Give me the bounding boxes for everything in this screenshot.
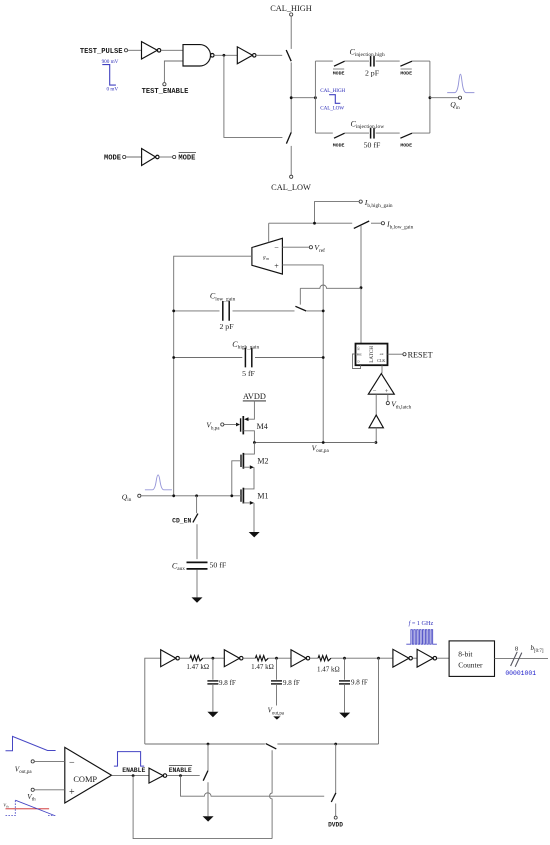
switch S9 (CD_EN): [193, 514, 198, 523]
wire Q_in line: [141, 495, 241, 497]
wire V_out_pa to COMP minus: [34, 760, 65, 762]
terminal I_b_high_gain: [359, 200, 362, 203]
svg-text:900 mV: 900 mV: [102, 59, 119, 65]
svg-text:PRE: PRE: [357, 353, 362, 356]
svg-text:CLK: CLK: [377, 358, 385, 363]
wire CD_EN branch upper: [196, 496, 198, 513]
svg-text:CAL_LOW: CAL_LOW: [271, 183, 311, 192]
transistor M1 (NMOS input): [241, 488, 254, 505]
inverter U4 (MODE): [142, 149, 160, 166]
terminal MODE-bar: [173, 155, 176, 158]
nand gate U2: [183, 45, 214, 66]
svg-text:M1: M1: [257, 492, 268, 501]
wire right bracket: [412, 61, 430, 133]
junction V_out_pa / M4 drain: [253, 441, 256, 444]
bus slash marks: [511, 652, 522, 667]
wire U12 to counter: [437, 657, 449, 659]
wire C_low_gain left: [174, 310, 220, 312]
junction feedback / DVDD branch: [334, 743, 337, 746]
wire U10 to R3: [310, 657, 319, 659]
wire latch feedback loop: [353, 354, 361, 369]
resistor R2: [255, 656, 268, 661]
svg-text:−: −: [69, 758, 75, 769]
inverter U8 (ring stage 1): [161, 650, 180, 667]
terminal MODE: [123, 155, 126, 158]
wire S1 to center node: [290, 62, 292, 132]
svg-text:CAL_LOW: CAL_LOW: [320, 106, 344, 112]
terminal Q_in (middle): [138, 494, 141, 497]
junction ENABLE-bar node: [179, 774, 182, 777]
ground C3: [339, 713, 350, 718]
wire NAND output to node A: [214, 54, 237, 56]
junction ring node 3: [343, 657, 346, 660]
wire R2 to inverter C: [268, 657, 291, 659]
junction ENABLE node: [132, 774, 135, 777]
svg-text:1.47 kΩ: 1.47 kΩ: [186, 663, 209, 671]
transistor M4 (PMOS): [236, 416, 249, 434]
capacitor C_injection_low: [371, 128, 374, 139]
wire ring node 2 down to C2: [276, 658, 278, 680]
ground C1: [207, 712, 218, 717]
wire C_aux to ground: [196, 570, 198, 598]
junction C_low_gain left rail: [172, 310, 175, 313]
wire R3 to buffers: [331, 657, 393, 659]
wire ring feedback line: [145, 743, 379, 745]
wire bias line: [269, 222, 353, 224]
label MODE-bar for S4: [400, 69, 412, 76]
svg-text:00001001: 00001001: [505, 670, 536, 677]
terminal TEST_PULSE: [124, 49, 127, 52]
capacitor C_high_gain: [245, 348, 251, 368]
wire S10 to ground: [207, 782, 209, 816]
junction V_out_pa / buffer: [375, 441, 378, 444]
switch S1 (CAL_HIGH select): [286, 50, 291, 61]
junction CAL center node: [290, 96, 293, 99]
svg-text:LATCH: LATCH: [369, 346, 375, 363]
terminal TEST_ENABLE: [163, 83, 166, 86]
svg-text:MODE: MODE: [178, 155, 195, 163]
svg-text:+: +: [274, 262, 279, 271]
svg-text:M2: M2: [257, 457, 268, 466]
wire U6 plus input to V_th_latch: [387, 394, 389, 401]
switch S12 (pull to DVDD): [331, 793, 336, 802]
wire latch rail down from S7: [360, 226, 362, 344]
waveform clock burst f=1GHz (blue): [406, 630, 437, 645]
wire DVDD branch upper: [335, 744, 337, 793]
wire S2 to CAL_LOW: [290, 146, 292, 175]
wire U6 minus input down to buffer: [375, 394, 377, 415]
switch S3 (MODE-bar, C_inj_high left): [334, 61, 345, 66]
terminal RESET: [403, 353, 406, 356]
svg-text:MODE: MODE: [104, 155, 121, 163]
svg-text:9.8 fF: 9.8 fF: [351, 678, 368, 686]
ground tail V_out_pa: [273, 716, 280, 719]
svg-text:50 fF: 50 fF: [364, 141, 381, 150]
terminal V_out_pa (COMP input): [31, 760, 34, 763]
svg-text:CAL_HIGH: CAL_HIGH: [320, 88, 345, 94]
wire C_injection_high to S4: [376, 60, 400, 62]
wire M4 drain to V_out_pa node: [243, 431, 254, 443]
junction Q_in / CD_EN branch: [195, 494, 198, 497]
svg-text:2 pF: 2 pF: [365, 69, 380, 78]
wire S5 to C_injection_low: [345, 132, 369, 134]
junction feedback tap: [377, 657, 380, 660]
switch S8 (C_low_gain select): [295, 306, 306, 311]
wire C_injection_low to S6: [376, 132, 400, 134]
waveform TEST_PULSE step (blue): [102, 65, 116, 86]
wire U11 to U12: [413, 657, 417, 659]
waveform V_th threshold (red/blue): [3, 800, 56, 815]
wire AVDD to M4 source: [248, 401, 255, 419]
waveform Q_in pulse (blue, middle): [145, 475, 172, 490]
op-amp U6 (latch comparator): [368, 374, 394, 396]
svg-text:CAL_HIGH: CAL_HIGH: [270, 4, 311, 13]
wire S8 to plus node: [307, 310, 324, 312]
terminal Q_in (top): [458, 96, 461, 99]
capacitor C2 9.8fF: [271, 681, 282, 684]
wire counter output bus: [495, 657, 549, 659]
svg-text:TEST_PULSE: TEST_PULSE: [80, 48, 123, 56]
label MODE-bar for S3: [333, 69, 345, 76]
ground M1 source: [249, 532, 260, 537]
capacitor C_low_gain: [223, 301, 229, 321]
svg-text:−: −: [274, 243, 279, 252]
svg-text:9.8 fF: 9.8 fF: [219, 679, 236, 687]
svg-text:0 mV: 0 mV: [106, 87, 118, 93]
wire gm minus input to V_ref: [282, 246, 309, 248]
wire M2 source to M1 drain: [243, 467, 254, 489]
wire V_out_pa line: [254, 442, 376, 444]
wire bias entry to gm top: [268, 223, 270, 242]
wire C2 to V_out_pa tail: [276, 684, 278, 706]
wire CAL_HIGH down: [290, 16, 292, 49]
switch S4 (MODE-bar, C_inj_high right): [400, 61, 412, 66]
svg-text:MODE: MODE: [400, 142, 412, 148]
junction plus node / C_high_gain: [322, 356, 325, 359]
wire U14 output to switch S10: [167, 775, 200, 777]
junction branch split: [314, 96, 317, 99]
junction feedback / pulldown branch: [207, 743, 210, 746]
inverter U12 (buffer 2): [417, 649, 437, 667]
svg-text:AVDD: AVDD: [243, 392, 266, 401]
wire M2 gate to Q_in line: [232, 461, 241, 496]
junction latch rail / bypass: [360, 286, 363, 289]
terminal CAL_HIGH: [290, 13, 293, 16]
wire gm plus input right: [282, 264, 323, 266]
inverter U3 (switch driver): [237, 47, 256, 64]
inverter U9 (ring stage 2): [224, 650, 243, 667]
svg-text:MODE: MODE: [333, 70, 345, 76]
wire ENABLE loop bottom: [133, 776, 272, 839]
junction Q_in node: [429, 96, 432, 99]
wire C_high_gain left: [174, 357, 243, 359]
svg-text:+: +: [69, 787, 75, 798]
wire buffer U7 to V_out_pa line: [375, 428, 377, 442]
terminal I_b_low_gain: [381, 222, 384, 225]
power AVDD: [243, 392, 266, 401]
switch S6 (MODE, C_inj_low right): [400, 133, 412, 138]
svg-text:+: +: [385, 388, 389, 395]
wire TEST_ENABLE to NAND pin B: [164, 61, 183, 83]
switch S5 (MODE, C_inj_low left): [334, 133, 345, 138]
capacitor C_injection_high: [371, 56, 374, 67]
svg-text:out: out: [380, 353, 384, 356]
junction node A: [223, 54, 226, 57]
waveform Q_in pulse (blue, top): [447, 74, 474, 92]
junction ring node 1: [212, 657, 215, 660]
terminal CAL_LOW: [290, 175, 293, 178]
svg-text:f = 1 GHz: f = 1 GHz: [409, 620, 434, 627]
waveform ENABLE pulse (blue): [114, 752, 144, 767]
svg-text:m: m: [266, 257, 269, 261]
buffer U7: [369, 415, 383, 428]
ground ring pulldown: [203, 816, 214, 821]
wire C_high_gain right to plus vertical: [255, 357, 323, 359]
switch S11 (ring break): [266, 744, 277, 749]
svg-text:COMP: COMP: [73, 775, 97, 784]
svg-text:TEST_ENABLE: TEST_ENABLE: [142, 88, 189, 96]
wire bypass with hop over plus-node vertical: [300, 285, 361, 288]
svg-text:MODE: MODE: [333, 142, 345, 148]
terminal V_ref: [309, 246, 312, 249]
resistor R3: [318, 656, 331, 661]
svg-text:M4: M4: [257, 422, 268, 431]
terminal V_th (COMP input): [31, 788, 34, 791]
wire ring-break riser with hop: [270, 750, 272, 838]
wire I_b_high_gain to bias line: [315, 202, 360, 224]
wire latch CLK to comparator U6: [381, 365, 383, 373]
wire R1 to inverter B: [203, 657, 225, 659]
junction V_out_pa / plus vertical: [322, 441, 325, 444]
svg-text:ENABLE: ENABLE: [169, 767, 192, 774]
terminal V_b_pa: [221, 423, 224, 426]
waveform CAL step (blue): [329, 95, 340, 104]
wire C_low_gain right to switch S8: [233, 310, 295, 312]
svg-text:9.8 fF: 9.8 fF: [283, 679, 300, 687]
inverter U1 (TEST_PULSE): [142, 42, 161, 59]
svg-text:5 fF: 5 fF: [242, 369, 255, 378]
junction bias line: [313, 222, 316, 225]
wire branch split bracket (left): [315, 61, 332, 133]
wire S4 to right bracket: [412, 60, 430, 62]
svg-text:1.47 kΩ: 1.47 kΩ: [251, 663, 274, 671]
resistor R1: [190, 656, 203, 661]
wire U9 to R2: [243, 657, 256, 659]
wire M1 source to ground: [253, 503, 255, 532]
switch S7 (I_b_low_gain select): [354, 221, 369, 228]
wire S12 to DVDD terminal: [335, 804, 337, 817]
waveform V_out_pa decay (blue): [6, 736, 56, 750]
label ENABLE-bar: [169, 766, 192, 774]
wire COMP output: [112, 775, 150, 777]
svg-text:2 pF: 2 pF: [219, 322, 234, 331]
wire ENABLE-bar riser and row: [181, 776, 325, 797]
capacitor C1 9.8fF: [207, 681, 218, 684]
terminal V_th_latch: [386, 402, 389, 405]
junction C_high_gain left rail: [172, 356, 175, 359]
wire U4 to MODE-bar terminal: [159, 156, 173, 158]
wire U8 to R1: [179, 657, 190, 659]
svg-text:DVDD: DVDD: [328, 821, 343, 828]
op-amp COMP: [65, 747, 112, 803]
svg-text:D: D: [358, 360, 360, 363]
svg-text:50 fF: 50 fF: [210, 560, 227, 569]
wire plus-node vertical (to V_out_pa line): [322, 265, 324, 443]
wire V_b_pa to M4 gate: [224, 424, 236, 426]
inverter U10 (ring stage 3): [291, 650, 310, 667]
switch S10 (pull to ground): [203, 771, 208, 781]
wire center node to branch split: [293, 97, 316, 99]
wire S7 to I_b_low_gain terminal: [371, 222, 381, 224]
wire inverter U1 to NAND pin A: [161, 49, 183, 51]
counter U13 (8-bit Counter): [449, 641, 494, 677]
svg-text:RESET: RESET: [408, 350, 433, 359]
wire V_th to COMP plus: [34, 789, 65, 791]
wire feedback riser to inverter A: [145, 658, 161, 744]
wire CD_EN branch lower: [196, 524, 198, 559]
svg-text:ENABLE: ENABLE: [122, 767, 145, 774]
node MODE-bar label: [178, 152, 196, 162]
wire V_out_pa node to M2 drain: [243, 443, 254, 455]
wire U3 output to CAL_HIGH switch: [256, 54, 282, 56]
wire ring node 3 down to C3: [344, 658, 346, 680]
ground C_aux: [192, 597, 203, 602]
wire gm output to left rail: [174, 256, 252, 496]
svg-text:−: −: [373, 388, 377, 395]
wire latch output to RESET: [388, 353, 403, 355]
switch S2 (CAL_LOW select): [286, 132, 291, 143]
transistor M2 (NMOS cascode): [241, 453, 254, 469]
wire TEST_PULSE to inverter: [128, 49, 142, 51]
wire bypass riser to switch S8: [299, 288, 301, 304]
wire C3 to ground: [344, 684, 346, 713]
svg-text:Counter: Counter: [458, 660, 483, 669]
terminal DVDD: [334, 816, 337, 819]
op-amp gm (transconductor): [252, 238, 283, 274]
wire Q_in node to terminal: [430, 97, 459, 99]
svg-text:1.47 kΩ: 1.47 kΩ: [317, 665, 340, 673]
capacitor C3 9.8fF: [339, 681, 350, 684]
inverter U14 (ENABLE): [149, 768, 167, 783]
inverter U11 (buffer 1): [393, 649, 413, 667]
svg-text:MODE: MODE: [400, 70, 412, 76]
wire C1 to ground: [212, 684, 214, 712]
svg-text:8-bit: 8-bit: [458, 649, 473, 658]
junction Q_in / gm rail: [172, 494, 175, 497]
latch U5 body: [356, 344, 388, 366]
wire ring node 1 down to C1: [212, 658, 214, 680]
wire S3 to C_injection_high: [345, 60, 369, 62]
svg-text:CD_EN: CD_EN: [172, 517, 191, 524]
wire MODE to inverter U4: [126, 156, 142, 158]
wire feedback tap down: [378, 658, 380, 744]
wire node A down to CAL_LOW switch: [224, 55, 283, 137]
junction plus node / C_low_gain: [322, 310, 325, 313]
junction Q_in / M2 gate riser: [230, 494, 233, 497]
junction ring node 2: [275, 657, 278, 660]
capacitor C_aux: [187, 562, 208, 569]
wire S_gnd upper: [207, 744, 209, 770]
